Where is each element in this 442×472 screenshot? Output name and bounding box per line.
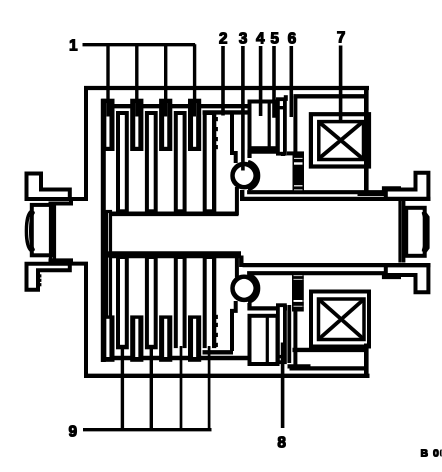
left flange L-bracket bottom [27,264,70,290]
left shaft end cap line b [53,202,55,262]
housing top outer line [85,86,369,89]
svg-text:8: 8 [277,435,286,452]
right shaft end cap line a [399,202,401,263]
housing left wall upper [71,87,86,199]
bearing ball B1 (top) [233,164,256,187]
outer plate P1 (top) [102,99,114,150]
coil U2 (lower winding, crossed box) [311,292,369,347]
svg-text:5: 5 [270,31,279,48]
inner plate D8 (bottom, splined hub sleeve) [203,252,217,348]
inner plate D7 (bottom) [174,252,186,348]
outer plate P6 (bottom) [131,316,143,361]
svg-text:2: 2 [219,31,228,48]
housing inner top line [294,95,367,98]
shaft left step bottom [240,256,243,267]
hub left wall upper [107,212,111,255]
shaft lower surface in pack area [108,252,241,258]
outer plate P4 (top) [189,99,201,150]
piston divider top [268,102,270,149]
callout 4 leader line [259,47,262,116]
bearing ball B2 (bottom) [233,277,256,300]
hub left wall lower [107,256,111,318]
housing bottom outer line [85,374,370,377]
seal S2 (bottom, hatched) [293,273,304,312]
cylinder bottom edge line [203,351,233,354]
piston divider bottom [266,316,268,364]
inner plate D1 (top) [117,112,129,216]
bobbin rung bottom [277,355,285,357]
left shaft end cap line a [49,202,51,262]
armature plate line bottom [288,306,291,363]
left flange disc rim arc [26,212,31,251]
outer plate P3 (top) [160,99,172,150]
left flange disc [32,205,52,255]
bobbin flange top [278,99,285,154]
svg-text:1: 1 [69,38,78,55]
housing left wall lower [71,264,86,377]
inner plate D4 (top, splined hub sleeve) [203,112,217,216]
right shaft end cap line b [403,202,405,263]
piston rect bottom [250,316,278,364]
inner plate D2 (top) [145,112,157,216]
bobbin foot / seal top connector [288,152,304,155]
housing inner bottom edge line [290,367,367,370]
inner plate D3 (top) [174,112,186,216]
drum left wall [101,99,105,361]
bobbin foot bottom connector [288,365,310,368]
housing inner bottom line [293,348,368,351]
bobbin rung top [277,106,285,108]
left flange disc inner arc [30,212,34,250]
housing right wall lower [364,344,368,377]
shaft bottom inner line [243,264,430,267]
seal S1 (top, hatched) [293,155,304,192]
left shaft stub top edge [49,200,71,204]
retainer plate bottom [250,304,286,309]
outer plate P5 (bottom) [102,316,114,361]
retainer plate top [250,152,284,158]
right flange disc [406,208,425,256]
bobbin flange bottom [278,305,285,362]
bearing pocket wall bottom [235,252,238,277]
housing bottom right edge [358,193,384,196]
right flange disc inner arc [423,213,425,252]
shaft bottom outer line [248,273,401,277]
bearing race arc bottom [249,275,259,302]
housing leg bottom [294,311,297,365]
inner plate D5 (bottom) [117,252,129,349]
callout 7 leader line [339,46,342,121]
shaft top inner line [243,197,430,200]
bearing pocket wall top [235,188,238,215]
left flange L-bracket top [27,174,70,200]
svg-text:B 00: B 00 [421,448,442,460]
callout 2 leader line [222,47,225,116]
callout 1 leader line [83,45,195,116]
outer plate P2 (top) [131,99,143,150]
bobbin lip top [284,96,287,101]
callout 9 leader line [84,347,212,430]
bearing race arc top [249,162,259,189]
callout 6 leader line [290,47,293,117]
right flange L-bracket top [386,173,429,199]
right flange L-bracket bottom [386,265,429,292]
outer plate P8 (bottom) [189,316,201,361]
drum bottom rail [102,356,249,359]
flange hub spline ticks [39,275,41,277]
callout 8 leader line [281,343,284,428]
callout 3 leader line [242,47,245,171]
svg-text:6: 6 [288,31,297,48]
coil U1 (upper winding, crossed box) [311,114,369,166]
housing leg top [294,96,297,152]
svg-text:3: 3 [239,31,248,48]
cylinder top edge line [203,111,249,114]
callout 5 leader line [273,47,276,118]
cylinder wall top [232,113,236,163]
housing right wall [364,88,368,194]
outer plate P7 (bottom) [160,316,172,361]
inner plate D6 (bottom) [145,252,157,349]
piston rect top [250,102,278,149]
svg-text:7: 7 [337,30,346,47]
cylinder wall bottom [232,302,236,351]
drum top rail [102,104,248,107]
left shaft stub bottom edge [49,260,71,264]
shaft left step top [240,191,243,201]
shaft top outer line [248,188,401,192]
hub top rail (shaft upper surface) [108,212,238,216]
svg-text:4: 4 [256,31,265,48]
svg-text:9: 9 [69,424,78,441]
right flange disc rim arc [425,213,428,252]
